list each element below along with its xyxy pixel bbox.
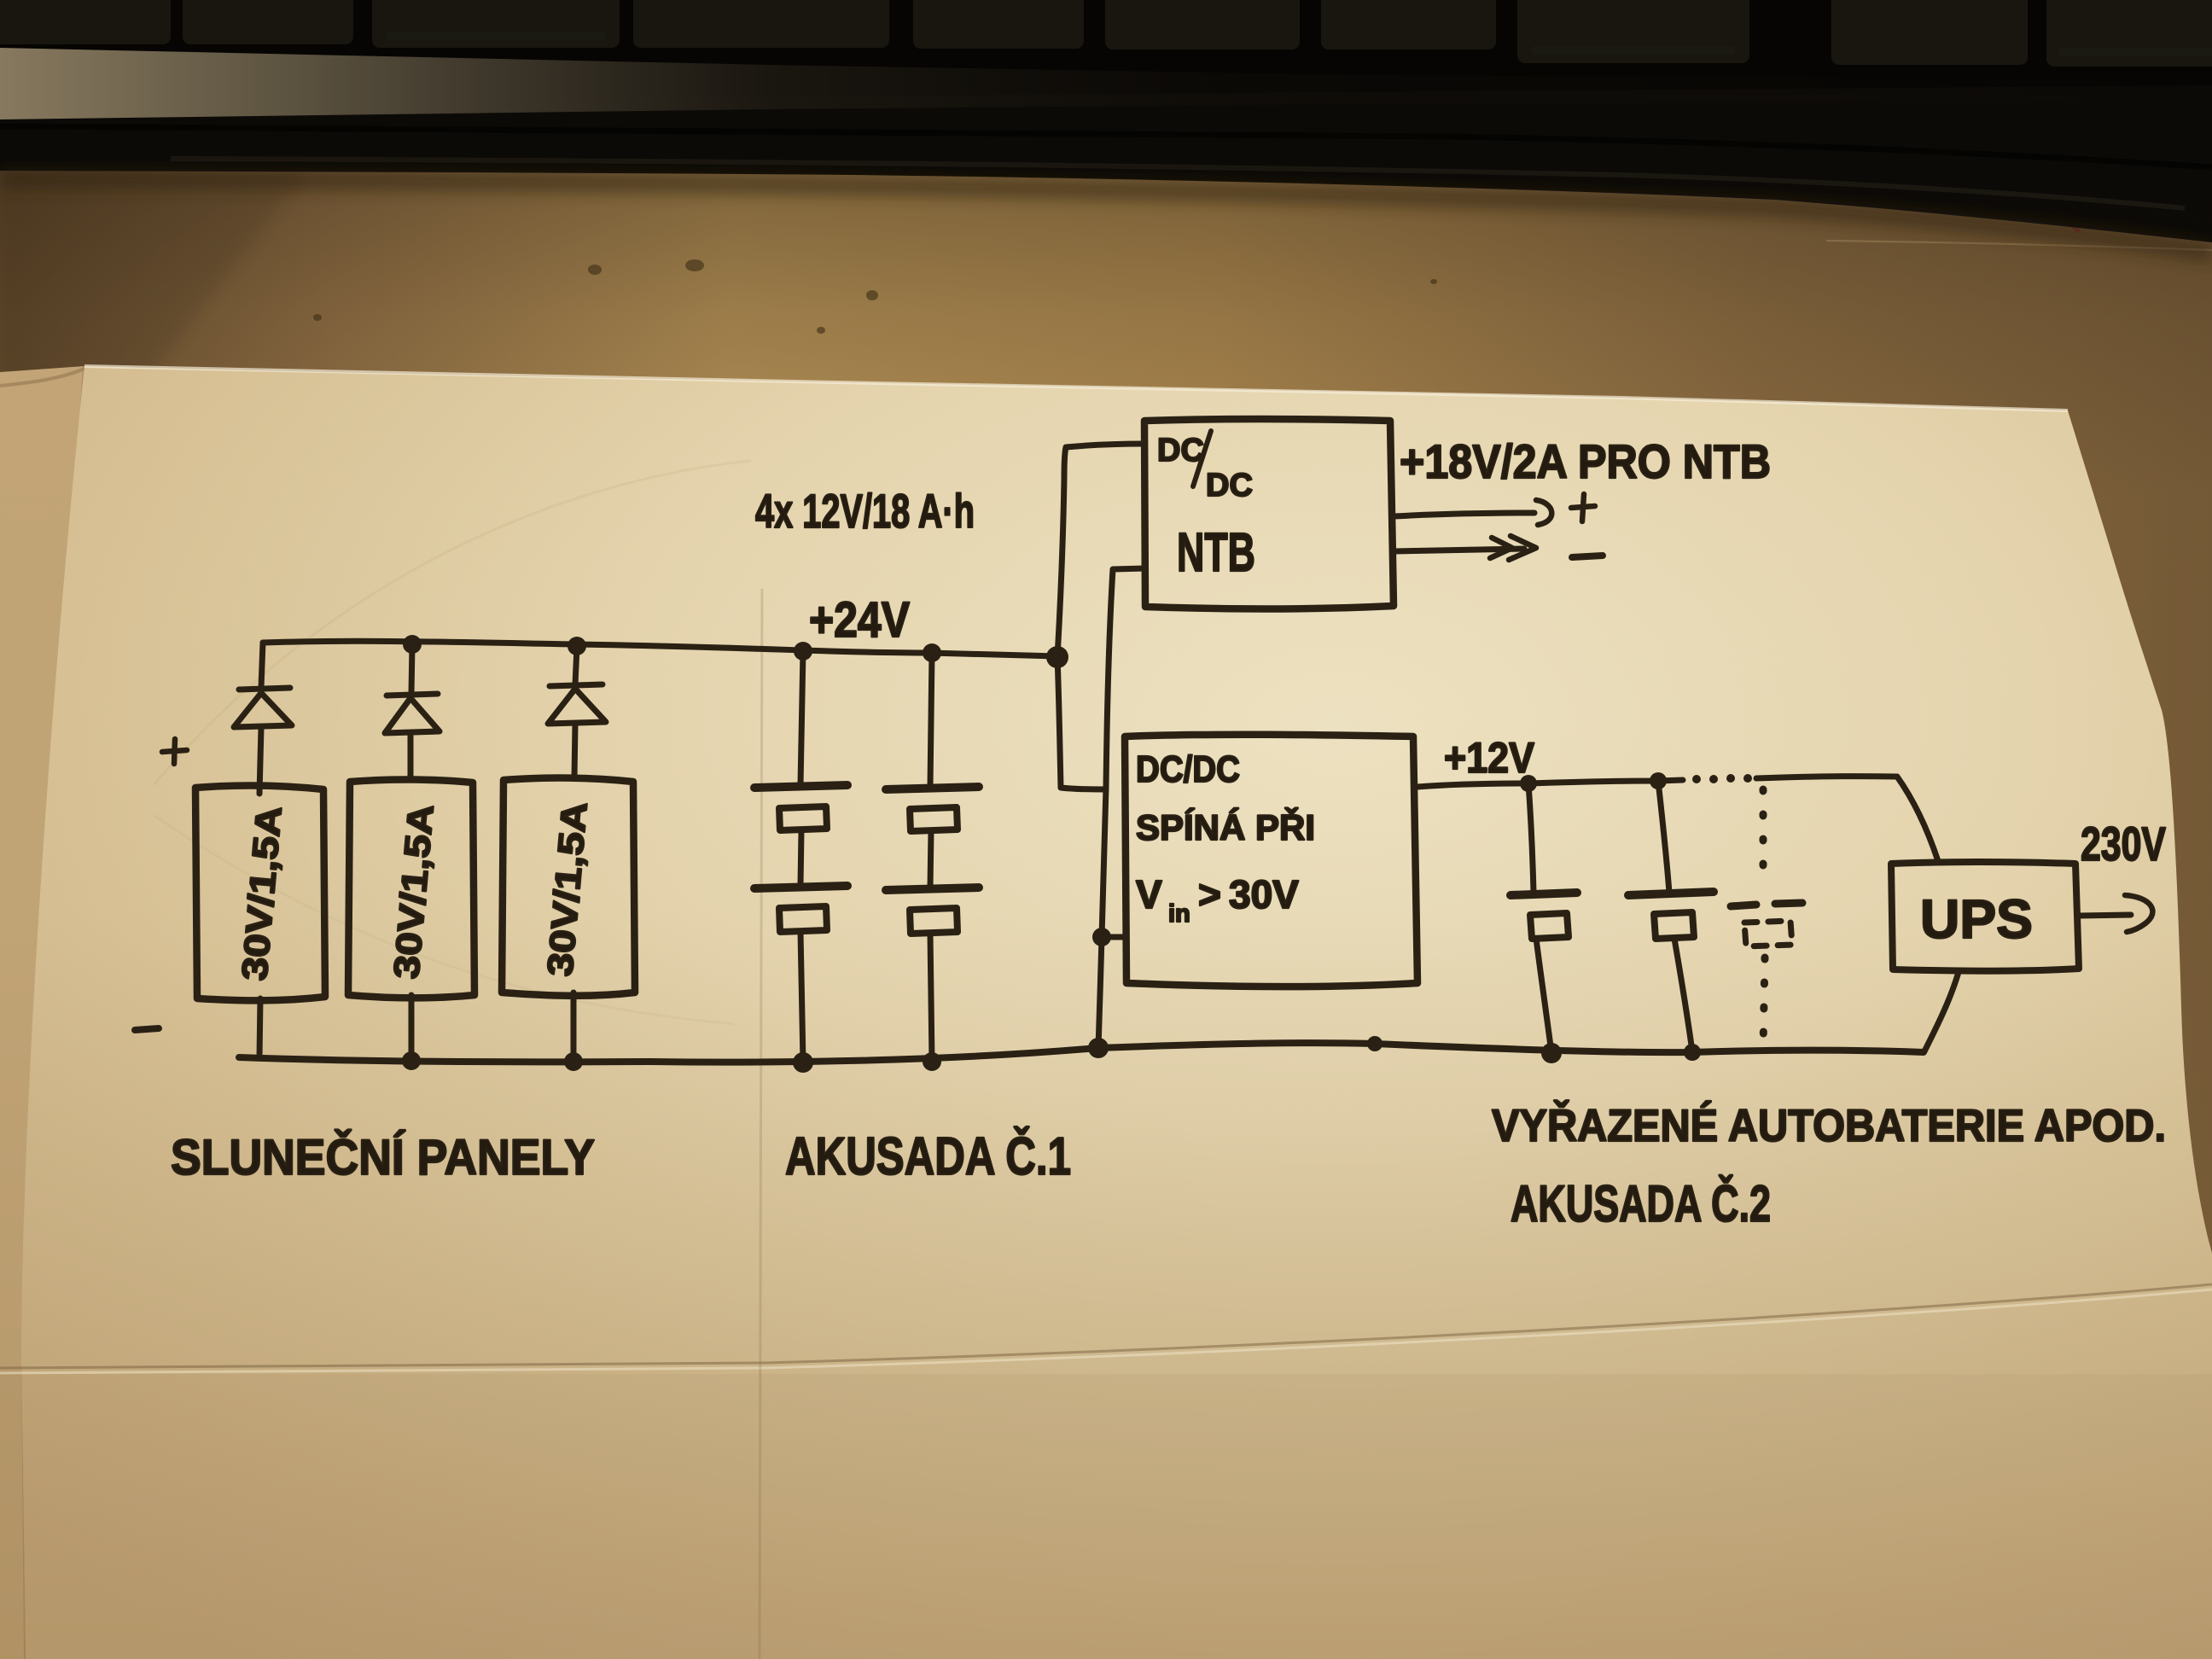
node PV3 bottom — [564, 1052, 583, 1071]
label U1 DC/DC — [1157, 431, 1253, 504]
arrow U1 output plus hook — [1536, 500, 1551, 525]
battery B5 short plate — [1530, 913, 1569, 939]
wire stub to U2 box — [1102, 934, 1125, 940]
svg-text:>: > — [1198, 872, 1221, 917]
wire B3 to B4 — [930, 831, 931, 888]
node battery bank2 column1 bottom — [1541, 1043, 1562, 1063]
node U2 input stub junction — [1092, 928, 1111, 946]
svg-text:SLUNEČNÍ PANELY: SLUNEČNÍ PANELY — [171, 1130, 595, 1185]
node battery bank1 column2 top — [923, 643, 941, 662]
solar panel PV1 30V/1,5A — [195, 786, 325, 1001]
wire +24V junction down to U2 input — [1057, 657, 1106, 789]
wire U1 output plus — [1394, 513, 1534, 516]
wire bottom return bus — [239, 1043, 1924, 1062]
svg-text:in: in — [1168, 900, 1190, 928]
wire battery bank1 column2 top — [930, 653, 932, 787]
diode D3 — [548, 647, 606, 778]
wire UPS return to bottom bus — [1924, 972, 1959, 1051]
svg-text:DC: DC — [1157, 433, 1204, 469]
minus terminal mark of PV1 — [135, 1028, 159, 1030]
arrow UPS output hook — [2125, 895, 2152, 932]
svg-text:DC/DC: DC/DC — [1136, 748, 1240, 790]
node battery bank2 column2 bottom — [1684, 1044, 1701, 1061]
battery Bx dotted future battery column — [1763, 789, 1765, 1048]
node return bus / U2 input return junction — [1088, 1038, 1109, 1058]
svg-text:+12V: +12V — [1444, 734, 1535, 782]
wire PV1 bottom — [259, 998, 260, 1058]
minus mark U1 output — [1572, 556, 1603, 557]
wire +12V rail dotted gap — [1692, 774, 1752, 783]
wire battery bank2 column2 bottom — [1674, 939, 1692, 1051]
svg-text:DC: DC — [1206, 468, 1253, 504]
battery B2 long plate — [754, 886, 847, 888]
wire battery bank2 column1 bottom — [1536, 939, 1551, 1052]
wire UPS output 230V — [2079, 915, 2131, 916]
arrow U1 output minus chevrons — [1509, 536, 1536, 560]
svg-text:SPÍNÁ PŘI: SPÍNÁ PŘI — [1136, 806, 1315, 847]
svg-text:NTB: NTB — [1177, 521, 1255, 583]
battery B6 short plate — [1654, 912, 1694, 939]
node battery bank1 column2 bottom — [923, 1052, 941, 1071]
wire +24V junction up to U1 input — [1057, 444, 1144, 657]
node battery bank2 column1 top — [1520, 775, 1537, 792]
shadow under laptop edge — [0, 179, 2212, 253]
svg-text:30V: 30V — [1229, 872, 1299, 917]
battery B3 short plate — [910, 807, 958, 831]
undersheet (left edge) — [0, 366, 84, 1659]
svg-text:AKUSADA Č.2: AKUSADA Č.2 — [1511, 1175, 1771, 1232]
DC/DC converter U2 box — [1125, 735, 1417, 987]
node D3 anode rail junction — [568, 637, 586, 655]
node D2 anode rail junction — [403, 635, 422, 654]
wire U1 left return down across to bottom bus — [1098, 568, 1145, 1048]
wire +12V rail right segment — [1756, 777, 1897, 778]
svg-text:+18V/2A PRO NTB: +18V/2A PRO NTB — [1400, 434, 1771, 488]
node PV2 bottom — [402, 1051, 421, 1070]
wire battery bank1 column1 bottom — [800, 932, 803, 1062]
battery B4 long plate — [886, 888, 979, 890]
battery B1 long plate — [754, 785, 847, 788]
wire B1 to B2 — [800, 830, 801, 886]
wire battery bank1 column2 bottom — [930, 934, 932, 1061]
node battery bank2 column2 top — [1650, 772, 1667, 789]
plus terminal mark of PV1 — [162, 739, 187, 764]
DC/DC NTB converter U1 box — [1144, 419, 1394, 608]
label U2 Vin>30V — [1136, 872, 1299, 928]
svg-text:UPS: UPS — [1920, 888, 2033, 950]
svg-text:VYŘAZENÉ AUTOBATERIE APOD.: VYŘAZENÉ AUTOBATERIE APOD. — [1492, 1099, 2166, 1151]
cardboard specks — [313, 259, 1437, 334]
node +24V rail end junction — [1046, 646, 1068, 668]
svg-text:230V: 230V — [2081, 817, 2166, 870]
svg-text:AKUSADA Č.1: AKUSADA Č.1 — [785, 1127, 1071, 1186]
wire U1 output minus — [1394, 549, 1524, 551]
diode D1 — [234, 643, 292, 794]
wire +12V rail to UPS — [1897, 777, 1938, 861]
solar panel PV2 30V/1,5A — [348, 779, 474, 998]
wire battery bank2 column1 top — [1528, 783, 1534, 893]
wire PV3 bottom — [571, 992, 577, 1061]
wire +12V rail from U2 output — [1417, 780, 1683, 787]
node battery bank1 column1 top — [794, 642, 812, 661]
diode D2 — [385, 645, 439, 777]
main paper sheet — [21, 366, 2212, 1659]
laptop dark body with curved bottom edge — [0, 85, 2212, 242]
battery B5 long plate — [1511, 893, 1577, 895]
node return bus blob — [1367, 1036, 1382, 1051]
wire battery bank2 column2 top — [1658, 781, 1669, 893]
wire battery bank1 column1 top — [800, 651, 803, 785]
wire solar top bus / +24V rail — [263, 641, 1057, 656]
battery Bx dashed short plate — [1744, 921, 1792, 946]
battery B2 short plate — [779, 906, 827, 932]
battery B1 short plate — [779, 806, 827, 830]
node battery bank1 column1 bottom — [793, 1052, 813, 1073]
battery B6 long plate — [1628, 892, 1714, 895]
UPS box — [1891, 862, 2079, 971]
battery Bx dashed long plate — [1731, 903, 1802, 906]
svg-text:V: V — [1136, 872, 1162, 917]
metallic edge strip — [0, 48, 2212, 119]
fold creases — [0, 1284, 2212, 1368]
svg-text:4x 12V/18 A·h: 4x 12V/18 A·h — [755, 484, 975, 538]
plus mark U1 output — [1571, 494, 1595, 521]
battery B3 long plate — [886, 787, 979, 789]
battery B4 short plate — [910, 908, 958, 934]
svg-text:+24V: +24V — [809, 592, 910, 648]
solar panel PV3 30V/1,5A — [502, 778, 635, 996]
wire PV2 bottom — [409, 995, 415, 1060]
